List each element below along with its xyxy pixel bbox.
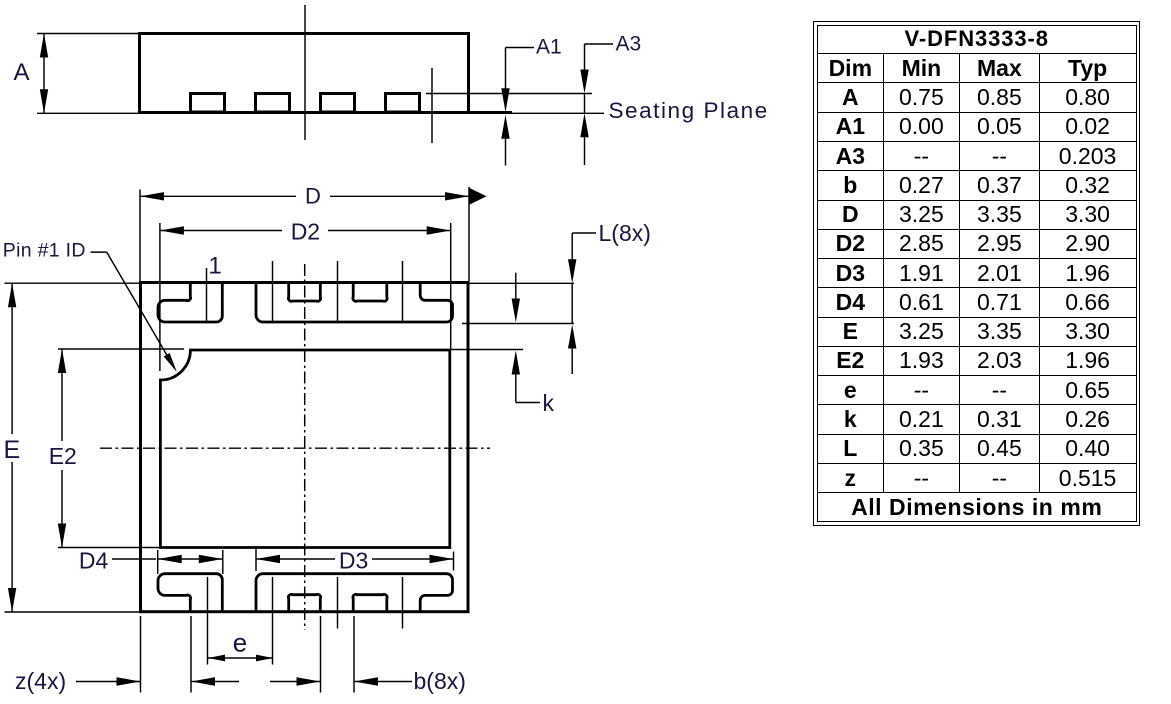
D4 left extension line xyxy=(157,550,159,574)
b left extension line xyxy=(320,616,322,693)
D right extension line xyxy=(468,187,470,281)
dimension D3 xyxy=(256,555,454,563)
side view bottom edge extension xyxy=(468,111,512,114)
svg-text:e: e xyxy=(233,628,247,658)
exposed pad with pin-1 chamfer xyxy=(160,350,449,548)
svg-text:D3: D3 xyxy=(339,548,368,574)
side view terminal 1 xyxy=(191,94,225,113)
svg-text:A3: A3 xyxy=(616,33,642,56)
gap notch between terminals 3 and 4 xyxy=(353,284,387,301)
svg-text:D2: D2 xyxy=(291,219,320,245)
dimension L xyxy=(568,233,596,374)
dimension D2 xyxy=(160,226,451,234)
dimension D xyxy=(140,188,487,205)
gap notch between terminals 6 and 7 xyxy=(288,594,320,611)
svg-text:D: D xyxy=(305,184,321,209)
dimension A1 leader and arrows xyxy=(501,48,534,166)
svg-text:A1: A1 xyxy=(536,36,562,59)
pin 2 center extension line xyxy=(272,261,274,322)
D4 right extension line xyxy=(222,550,224,574)
z left extension line xyxy=(140,616,142,693)
side view package body xyxy=(140,34,469,113)
svg-text:D4: D4 xyxy=(79,548,109,574)
svg-text:E2: E2 xyxy=(49,443,77,469)
L top extension line xyxy=(470,282,575,284)
side view terminal 2 xyxy=(256,94,290,113)
E top extension line xyxy=(5,282,140,284)
D3 left extension line xyxy=(255,549,257,571)
dimension A3 leader and arrows xyxy=(580,44,613,165)
D2 left extension line xyxy=(159,223,161,371)
dimension D4 xyxy=(112,555,223,563)
side view vertical centerline xyxy=(304,5,306,140)
b right extension line xyxy=(353,616,355,693)
D3 right extension line xyxy=(453,552,455,571)
dimension E xyxy=(8,283,16,612)
L bottom extension line xyxy=(462,323,574,325)
terminals 6-8 outline (bottom row) xyxy=(256,574,453,612)
side view terminal 3 xyxy=(321,94,355,113)
pin 1 center extension line xyxy=(206,268,208,322)
pin 7 center extension line xyxy=(337,577,339,629)
E2 top extension line xyxy=(58,348,184,350)
dimension A xyxy=(40,34,48,114)
svg-text:z(4x): z(4x) xyxy=(15,668,66,694)
svg-text:A: A xyxy=(13,59,29,86)
terminal top extension line (A3) xyxy=(426,93,592,95)
dimension b xyxy=(270,677,412,685)
gap notch between terminals 7 and 8 xyxy=(353,594,387,611)
dimension z xyxy=(76,677,239,685)
e left extension line xyxy=(207,577,209,665)
pin 4 center extension line xyxy=(402,261,404,322)
side view terminal 4 xyxy=(386,94,420,113)
D left extension line xyxy=(139,190,141,282)
seating plane line xyxy=(37,112,604,114)
svg-text:Pin #1 ID: Pin #1 ID xyxy=(3,240,86,262)
k bottom extension line xyxy=(450,349,523,351)
pin 3 center extension line xyxy=(337,261,339,322)
svg-text:k: k xyxy=(543,390,555,416)
e right extension line xyxy=(272,577,274,665)
horizontal centerline xyxy=(100,447,490,449)
pin 1 ID leader arrow xyxy=(91,252,177,372)
svg-text:Seating Plane: Seating Plane xyxy=(609,98,769,123)
terminal 5 outline (bottom-left) xyxy=(158,574,222,612)
package outline (bottom view) xyxy=(141,283,469,612)
dimension E2 xyxy=(58,349,66,548)
dimension table V-DFN3333-8 xyxy=(813,21,1140,527)
z right extension line xyxy=(190,616,192,693)
dimension A top extension line xyxy=(37,33,140,35)
gap notch between terminals 2 and 3 xyxy=(288,284,320,301)
svg-text:L(8x): L(8x) xyxy=(599,220,651,246)
svg-text:E: E xyxy=(4,436,21,464)
D2 right extension line xyxy=(450,223,452,350)
dimension e xyxy=(208,655,273,662)
svg-text:b(8x): b(8x) xyxy=(414,668,466,694)
terminal 1 outline (pin 1, top-left) xyxy=(158,284,222,322)
E2 bottom extension line xyxy=(58,547,160,549)
dimension k xyxy=(512,273,540,403)
vertical centerline xyxy=(304,264,306,630)
terminals 2-4 outline (top row) xyxy=(256,284,453,322)
svg-text:1: 1 xyxy=(208,253,221,280)
E bottom extension line xyxy=(5,611,140,613)
side view extension line right xyxy=(431,68,433,143)
pin 8 center extension line xyxy=(402,577,404,629)
